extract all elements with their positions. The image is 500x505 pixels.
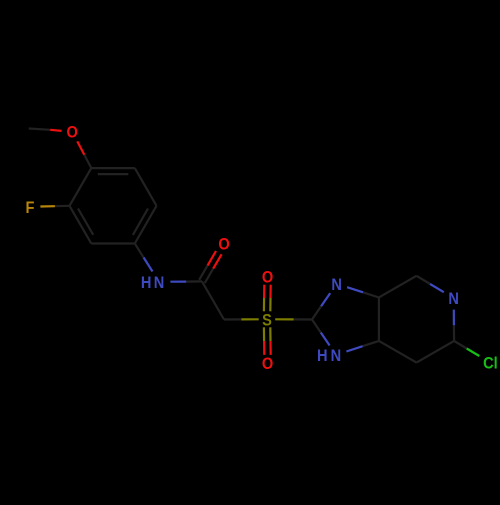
svg-text:F: F xyxy=(26,199,35,217)
wire bond C2-N3 (imidazole) xyxy=(312,293,330,319)
wire fusion bond C3a-C7a xyxy=(378,298,380,341)
svg-text:O: O xyxy=(67,124,78,142)
wire benzene C3'-C4' xyxy=(70,168,92,206)
svg-text:O: O xyxy=(262,355,273,373)
svg-text:N: N xyxy=(331,347,342,365)
svg-text:S: S xyxy=(262,311,272,329)
wire bond C4-N5 (pyridine) xyxy=(417,276,444,292)
wire bond C6-Cl xyxy=(454,341,479,356)
wire bond N1-C7a xyxy=(346,341,379,352)
wire bond N-C carbonyl xyxy=(170,280,202,283)
wire bond O-CH3 (methoxy) xyxy=(29,129,62,131)
svg-text:N: N xyxy=(331,276,342,294)
wire bond C3a-C4 (pyridine) xyxy=(379,276,417,298)
wire bond C2-N1H (imidazole) xyxy=(312,320,330,346)
svg-text:Cl: Cl xyxy=(483,355,498,373)
wire bond O-C4' (methoxy to ring) xyxy=(77,141,91,168)
wire benzene C6'-C1' xyxy=(135,206,157,244)
wire bond C7-C7a (pyridine) xyxy=(379,341,417,363)
wire bond C6-C7 (pyridine) xyxy=(417,341,455,363)
wire bond N3-C3a xyxy=(347,287,379,297)
svg-text:O: O xyxy=(262,269,273,287)
wire double bond S=O (bottom) xyxy=(264,327,271,355)
wire benzene double-bond inner line C4'=C5' xyxy=(98,173,129,175)
wire benzene C5'-C6' xyxy=(135,168,157,206)
wire double bond C=O (amide carbonyl) xyxy=(199,251,221,283)
wire benzene C2'-C3' xyxy=(70,206,92,244)
wire benzene double-bond inner line C2'=C3' xyxy=(78,209,93,235)
svg-text:N: N xyxy=(448,290,459,308)
svg-text:N: N xyxy=(154,274,165,292)
wire bond N5-C6 (pyridine) xyxy=(453,310,456,341)
wire bond CH2-S xyxy=(224,318,259,320)
wire bond C(=O)-CH2 xyxy=(202,281,224,319)
wire benzene double-bond inner line C6'=C1' xyxy=(133,209,148,235)
wire bond C1'-N (anilide) xyxy=(135,244,153,272)
wire bond S-C2 (imidazole) xyxy=(275,318,312,320)
svg-text:H: H xyxy=(317,347,328,365)
wire bond F-C3' xyxy=(40,205,69,208)
wire benzene C1'-C2' (bottom edge) xyxy=(91,242,135,244)
wire double bond S=O (top) xyxy=(264,285,271,312)
svg-text:H: H xyxy=(141,274,152,292)
svg-text:O: O xyxy=(218,236,229,254)
wire benzene C4'-C5' (top edge) xyxy=(91,167,135,169)
